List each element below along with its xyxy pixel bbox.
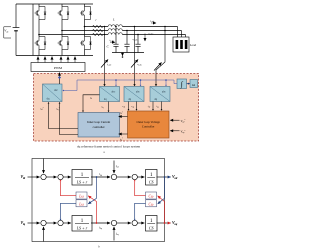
- capacitor C2: [124, 31, 129, 53]
- transform block T3 abc->dq: [124, 87, 144, 102]
- transistor Q6 (leg B bottom): [58, 37, 70, 50]
- wire S4-B2: [137, 176, 144, 178]
- wire S8-B4: [137, 222, 144, 224]
- gate drive arrows: [38, 57, 75, 63]
- measurement wire vC,abc to abc/dq: [134, 27, 136, 86]
- svg-text:vC,abc: vC,abc: [137, 64, 142, 67]
- svg-text:r: r: [96, 18, 98, 22]
- wires outer controller to inner controller: [119, 116, 128, 118]
- Comega box 1: [146, 192, 157, 199]
- svg-text:io,abc: io,abc: [150, 21, 155, 24]
- feedback frame: [32, 159, 165, 242]
- load wires: [178, 27, 186, 38]
- summing junction S6: [58, 220, 63, 225]
- red path Voq to Cw1 to S4: [135, 181, 165, 223]
- inner loop current controller box: [78, 113, 120, 138]
- inductor L (phase b): [108, 29, 122, 31]
- neutral arrow: [122, 53, 124, 56]
- node cap taps: [115, 26, 117, 28]
- capacitor C3: [135, 35, 140, 53]
- node leg A phase tap: [38, 34, 40, 36]
- summing junction S4: [132, 174, 137, 179]
- capacitor C1: [113, 27, 118, 53]
- dc source rail: [15, 4, 17, 28]
- wire S6-B3: [63, 222, 71, 224]
- leg A vertical wires: [38, 4, 40, 7]
- control region background: [34, 74, 199, 142]
- block 1/(LS+r) d-axis: [72, 170, 92, 186]
- wire S7-S8: [117, 222, 131, 224]
- battery Vdc plates: [13, 27, 20, 29]
- svg-text:CS: CS: [149, 225, 154, 230]
- svg-text:Vid: Vid: [21, 174, 26, 180]
- wire T1 to PWM: [59, 73, 61, 84]
- svg-text:Load: Load: [190, 43, 197, 47]
- svg-text:ω: ω: [192, 82, 195, 87]
- svg-text:ioq: ioq: [156, 106, 158, 109]
- reference inputs Vod* Voq*: [170, 119, 179, 121]
- transform block T4 abc->dq: [150, 87, 170, 102]
- summing junction S3: [111, 174, 116, 179]
- svg-text:Outer loop Voltage: Outer loop Voltage: [136, 120, 160, 124]
- svg-text:LS + r: LS + r: [76, 225, 88, 230]
- wire B4 - Voq out: [157, 222, 171, 224]
- transistor Q1 (leg A top): [35, 7, 47, 20]
- probe slash iL: [101, 60, 108, 68]
- iod input: [113, 161, 115, 174]
- blue path Vod to Cw2 to S8: [135, 177, 165, 219]
- load box: [173, 37, 189, 52]
- svg-text:vod: vod: [122, 106, 125, 109]
- svg-text:PWM: PWM: [54, 66, 62, 70]
- wire S1-S2: [46, 176, 56, 178]
- svg-text:Lω: Lω: [78, 195, 84, 199]
- svg-text:CS: CS: [149, 179, 154, 184]
- svg-text:Vod: Vod: [172, 174, 178, 180]
- wire theta rail: [63, 80, 177, 91]
- theta drop T4: [165, 80, 167, 86]
- probe slash io: [154, 63, 162, 71]
- svg-text:Viq: Viq: [21, 220, 26, 226]
- svg-text:ilq: ilq: [102, 107, 104, 110]
- wire B3-S7 with iLq node: [91, 222, 110, 224]
- measurement wire io,abc to abc/dq: [156, 27, 165, 86]
- summing junction S5: [41, 220, 46, 225]
- dc bus bottom rail: [16, 55, 93, 57]
- outer loop voltage controller box: [128, 111, 170, 138]
- leg C vertical wires: [84, 4, 86, 7]
- svg-text:vo,abc: vo,abc: [149, 33, 154, 36]
- resistor r (phase c): [93, 33, 103, 36]
- wire B1-S3 with iLd node: [91, 176, 110, 178]
- bridge left edge: [32, 4, 34, 56]
- summing junction S8: [132, 220, 137, 225]
- vC arrow: [144, 34, 146, 42]
- svg-text:C: C: [107, 45, 110, 49]
- blue path iLd to Lw2 to S6: [61, 177, 97, 219]
- Vdc label bracket: [4, 27, 11, 38]
- svg-text:iL,abc: iL,abc: [107, 64, 112, 67]
- svg-text:Voq: Voq: [172, 220, 178, 226]
- svg-text:dq reference frame nested cont: dq reference frame nested control loops …: [77, 144, 141, 148]
- inductor L (phase a): [108, 25, 122, 27]
- theta drop T2: [115, 80, 117, 86]
- PWM box: [31, 63, 85, 72]
- summing junction S7: [111, 220, 116, 225]
- transistor Q4 (leg A bottom): [35, 37, 47, 50]
- svg-text:ild: ild: [90, 97, 92, 100]
- svg-text:iLq: iLq: [99, 226, 102, 231]
- block 1/CS d-axis: [146, 170, 158, 186]
- Vod feedback drop into sum1: [43, 159, 45, 174]
- node leg C phase tap: [84, 26, 86, 28]
- svg-text:ilq*: ilq*: [120, 138, 123, 141]
- wire S5-S6: [46, 222, 56, 224]
- Lomega box 2: [76, 200, 87, 207]
- svg-text:L: L: [112, 18, 115, 22]
- phase line b: [62, 30, 108, 32]
- svg-text:vC,abc: vC,abc: [133, 39, 138, 42]
- svg-text:b: b: [98, 245, 100, 249]
- svg-text:Cω: Cω: [149, 202, 154, 206]
- block 1/CS q-axis: [146, 216, 158, 232]
- omega box: [190, 80, 198, 88]
- transistor Q3 (leg B top): [58, 7, 70, 20]
- wire T2 q output to inner controller: [108, 102, 110, 112]
- dc bus top rail: [16, 3, 93, 5]
- integrator box: [177, 79, 187, 89]
- svg-text:a: a: [103, 150, 105, 154]
- ioq input: [113, 227, 115, 241]
- wires T3 outputs to outer controller: [128, 102, 130, 110]
- transform block T2 abc->dq: [100, 87, 120, 102]
- phase line a: [85, 26, 109, 28]
- theta drop T3: [140, 80, 142, 86]
- wire Viq in: [28, 222, 40, 224]
- svg-text:iod: iod: [148, 106, 150, 109]
- transistor Q2 (leg C bottom): [80, 37, 92, 50]
- wire Vid in: [28, 176, 40, 178]
- measurement wire iL,abc to abc/dq: [104, 27, 106, 86]
- summing junction S1: [41, 174, 46, 179]
- svg-text:Cω: Cω: [149, 195, 154, 199]
- wire B2 - Vod out: [157, 176, 171, 178]
- Comega box 2: [146, 200, 157, 207]
- svg-text:controller: controller: [93, 125, 105, 129]
- Lomega box 1: [76, 192, 87, 199]
- wire S2-B1: [63, 176, 71, 178]
- svg-text:iLd: iLd: [99, 172, 103, 177]
- svg-text:ioq: ioq: [116, 232, 119, 237]
- wires T4 outputs to outer controller: [152, 102, 154, 110]
- inductor L (phase c): [108, 33, 122, 35]
- wires inner controller outputs to T1: [49, 104, 79, 135]
- block 1/(LS+r) q-axis: [72, 216, 92, 232]
- resistor r (phase a): [93, 25, 103, 28]
- svg-text:Vdc: Vdc: [4, 29, 8, 34]
- leg B vertical wires: [61, 4, 63, 7]
- svg-text:LS + r: LS + r: [76, 179, 88, 184]
- node leg B phase tap: [61, 30, 63, 32]
- svg-text:voq: voq: [131, 106, 134, 109]
- svg-text:iod: iod: [116, 164, 120, 169]
- svg-text:Controller: Controller: [142, 124, 155, 128]
- capacitor neutral rail: [112, 52, 144, 54]
- transform block T1 dq->abc: [43, 84, 63, 102]
- transistor Q5 (leg C top): [80, 7, 92, 20]
- svg-text:Lω: Lω: [78, 202, 84, 206]
- wire omega to integrator: [187, 83, 191, 85]
- resistor r (phase b): [93, 29, 103, 32]
- phase line c: [39, 34, 108, 36]
- red path iLq to Lw1 to S2: [61, 181, 97, 223]
- probe slash vC: [131, 60, 138, 68]
- Voq feedback rise into sum5: [43, 227, 45, 242]
- wire S3-S4: [117, 176, 131, 178]
- svg-text:Inner loop Current: Inner loop Current: [87, 120, 110, 124]
- wire T2 d output to inner controller: [83, 95, 100, 111]
- summing junction S2: [58, 174, 63, 179]
